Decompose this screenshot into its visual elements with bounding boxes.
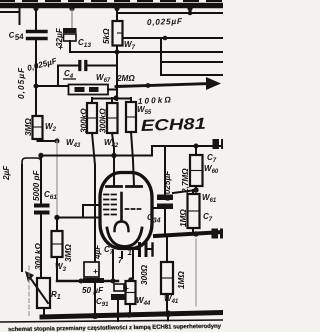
wire grid2 into tube (83, 205, 100, 217)
node on mid bus (193, 231, 198, 236)
wire vertical x117 (116, 52, 118, 100)
value 300Ohm W44 (140, 264, 149, 285)
bottom bus (42, 313, 223, 318)
tube cathode bar (120, 193, 123, 220)
wire y75 (161, 74, 223, 76)
svg-text:+: + (93, 267, 98, 276)
svg-text:50 µF: 50 µF (82, 286, 104, 295)
value 32uF (55, 27, 64, 47)
chassis dash line (28, 266, 30, 318)
tube pin to C91 (112, 250, 114, 281)
stub bus to chassis 2 (117, 315, 119, 321)
node mid right (194, 144, 199, 149)
wire y52 (72, 51, 223, 53)
node W7 bottom (115, 50, 120, 55)
anode lead left (113, 156, 115, 186)
heavy wire with arrow to edge (116, 77, 221, 90)
node pin line joins (111, 279, 116, 284)
node on cathode wire (79, 279, 84, 284)
svg-text:1MΩ: 1MΩ (177, 271, 186, 289)
faint wire x196 (195, 239, 197, 306)
wire y38 (123, 37, 223, 39)
svg-text:7: 7 (118, 256, 123, 265)
value 4uF (93, 244, 102, 260)
value 2,7MOhm W60 (181, 168, 190, 194)
wire wiper x22 (21, 165, 23, 271)
resistor W60 (190, 146, 203, 190)
stub bus to chassis (167, 314, 169, 321)
value 300kOhm a (80, 108, 89, 133)
tube grid dashes (104, 195, 141, 215)
capacitor C34 (157, 146, 173, 233)
svg-text:300 kΩ: 300 kΩ (34, 243, 43, 270)
value 300kOhm R1 (34, 243, 43, 270)
tube pin cathode (132, 250, 134, 278)
value 1MOhm W61 (179, 209, 188, 227)
resistor W42 (107, 98, 118, 155)
resistor W41 (161, 236, 173, 313)
svg-text:1: 1 (128, 248, 133, 257)
anode plate left (107, 185, 122, 188)
wire cathode network (57, 280, 118, 282)
value 5000pF (32, 170, 41, 201)
value 0,05uF (17, 67, 26, 99)
node pin/W44 (128, 277, 134, 283)
wire y13 right (117, 12, 223, 14)
svg-text:+: + (124, 284, 129, 293)
svg-text:2MΩ: 2MΩ (116, 74, 135, 83)
svg-text:3MΩ: 3MΩ (24, 118, 33, 136)
heater bypass capacitor (133, 244, 153, 256)
node mid anode (111, 153, 116, 158)
node C54/W67 junction (34, 84, 39, 89)
chassis line below bus (0, 320, 223, 322)
mid wire with jog (41, 146, 223, 156)
stub wire top left (0, 8, 20, 24)
node W60/W61 (193, 187, 198, 192)
wire bus stub (189, 8, 191, 13)
node W2 wire end (55, 139, 60, 144)
svg-text:2,7MΩ: 2,7MΩ (181, 168, 190, 194)
svg-text:300kΩ: 300kΩ (99, 108, 108, 133)
value 3MOhm W2 (24, 118, 33, 136)
capacitor to edge mid (212, 229, 224, 239)
ground wire x95 (94, 283, 96, 315)
resistor W43 (87, 98, 97, 262)
wire y62 (161, 61, 223, 63)
heater arc (107, 228, 142, 247)
svg-text:0,025µF: 0,025µF (147, 17, 183, 27)
bus junction bumps (33, 6, 192, 11)
wire trio top rail (92, 98, 131, 100)
svg-text:300kΩ: 300kΩ (80, 108, 89, 133)
resistor W67 boxed (36, 85, 116, 95)
svg-text:ECH81: ECH81 (141, 116, 207, 135)
node trio top (113, 95, 118, 100)
svg-text:2µF: 2µF (2, 165, 11, 181)
wire to W2 (35, 86, 37, 116)
capacitor C13 electrolytic (63, 28, 77, 52)
node grid wire (54, 215, 59, 220)
value 3MOhm W3 (64, 244, 73, 262)
capacitor to edge top (213, 139, 224, 149)
resistor W44 (126, 281, 136, 315)
capacitor C4 (58, 62, 116, 86)
svg-text:+: + (58, 43, 63, 52)
partial value left edge (2, 165, 11, 181)
wire from bus to C54 (35, 8, 37, 29)
bus nodes (92, 310, 172, 319)
node on y38 (163, 36, 168, 41)
faint wire x57 (56, 141, 58, 216)
shield loop around C61 (22, 158, 41, 168)
node 5000pF top (38, 153, 43, 158)
crop remnant top edge (0, 0, 223, 2)
svg-text:5kΩ: 5kΩ (102, 28, 111, 44)
svg-text:0,05µF: 0,05µF (17, 67, 26, 99)
resistor W61 (188, 190, 200, 234)
caption strip (8, 324, 222, 332)
svg-text:1MΩ: 1MΩ (179, 209, 188, 227)
resistor W2 (33, 116, 58, 141)
node on y13 (188, 11, 193, 16)
capacitor C61 5000pF (36, 158, 48, 278)
wire grid1 into tube (57, 217, 100, 219)
resistor W3 (52, 218, 63, 282)
svg-text:4µF: 4µF (93, 244, 102, 260)
resistor W55 (126, 98, 136, 186)
anode plate right (127, 185, 142, 188)
capacitor C54 (28, 32, 47, 85)
svg-text:3MΩ: 3MΩ (64, 244, 73, 262)
cathode hook (115, 222, 129, 232)
potentiometer R1 (25, 271, 50, 315)
value 300kOhm b (99, 108, 108, 133)
wire vertical x161 (160, 38, 162, 75)
svg-text:0,025µF: 0,025µF (163, 170, 172, 201)
value 5kOhm W7 (102, 28, 111, 44)
capacitor C91 electrolytic (111, 284, 126, 315)
resistor W7 (113, 8, 123, 53)
value 1MOhm W41 (177, 271, 186, 289)
right mid bus (155, 232, 223, 236)
wire bus to C13 (71, 10, 73, 28)
capacitor C7 electrolytic (83, 262, 104, 283)
triode grid wire right (154, 207, 165, 209)
svg-text:5000 pF: 5000 pF (32, 170, 41, 201)
svg-text:300Ω: 300Ω (140, 264, 149, 285)
top supply bus (0, 3, 223, 9)
wire C34 to node (173, 190, 196, 193)
tube pin 2 (121, 252, 123, 258)
tube ECH81 envelope (100, 173, 152, 249)
value 0,025uF C34 (163, 170, 172, 201)
